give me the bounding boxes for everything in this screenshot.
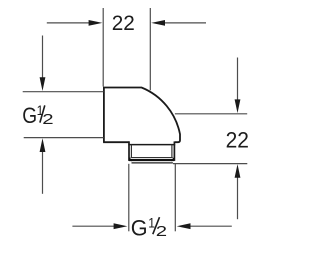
svg-text:G: G bbox=[131, 215, 148, 240]
left dimension arrow up bbox=[40, 138, 46, 152]
right extension line bottom bbox=[173, 163, 247, 165]
pipe right line / bottom-right extension line bbox=[174, 164, 176, 232]
elbow body outline bbox=[104, 88, 180, 143]
bottom dimension label G1/2 bbox=[131, 215, 167, 240]
left extension line bottom bbox=[24, 137, 104, 139]
nipple right chamfer line bbox=[171, 145, 173, 158]
pipe left line / bottom-left extension line bbox=[128, 164, 130, 232]
right extension line top bbox=[175, 113, 247, 115]
nipple chamfer start line bbox=[131, 157, 173, 159]
bottom dimension arrow left bbox=[114, 223, 128, 229]
bottom dimension leader right bbox=[190, 225, 232, 227]
svg-text:1: 1 bbox=[148, 215, 155, 231]
nipple bottom thick line bbox=[129, 159, 174, 161]
bottom dimension leader left bbox=[72, 225, 114, 227]
top dimension leader right bbox=[165, 22, 206, 24]
left dimension leader down bbox=[42, 36, 44, 79]
nipple bottom corner chamfer left bbox=[129, 158, 132, 162]
svg-text:22: 22 bbox=[226, 128, 249, 153]
body bottom edge left segment bbox=[103, 141, 129, 143]
right dimension arrow down bbox=[235, 99, 241, 113]
svg-text:2: 2 bbox=[156, 223, 167, 240]
right dimension arrow up bbox=[235, 164, 241, 178]
nipple left chamfer line bbox=[130, 145, 132, 158]
top extension line left bbox=[102, 8, 104, 87]
nipple bottom corner chamfer right bbox=[171, 158, 174, 162]
svg-text:22: 22 bbox=[112, 12, 135, 35]
top dimension leader left bbox=[47, 22, 89, 24]
svg-text:2: 2 bbox=[42, 111, 53, 128]
svg-text:G: G bbox=[22, 104, 37, 128]
right dimension leader down bbox=[237, 58, 239, 101]
left extension line top bbox=[23, 91, 104, 93]
top extension line right bbox=[149, 8, 151, 90]
left dimension leader up bbox=[42, 152, 44, 194]
nipple thread shoulder line bbox=[128, 144, 175, 146]
bottom dimension arrow right bbox=[177, 223, 191, 229]
nipple left edge bbox=[128, 141, 130, 161]
nipple bottom face line bbox=[132, 162, 173, 164]
top dimension arrow right bbox=[151, 20, 165, 26]
top dimension arrow left bbox=[89, 20, 103, 26]
left dimension label G1/2 bbox=[22, 103, 53, 129]
left dimension arrow down bbox=[40, 77, 46, 91]
nipple right edge bbox=[173, 141, 175, 161]
right dimension leader up bbox=[237, 178, 239, 220]
